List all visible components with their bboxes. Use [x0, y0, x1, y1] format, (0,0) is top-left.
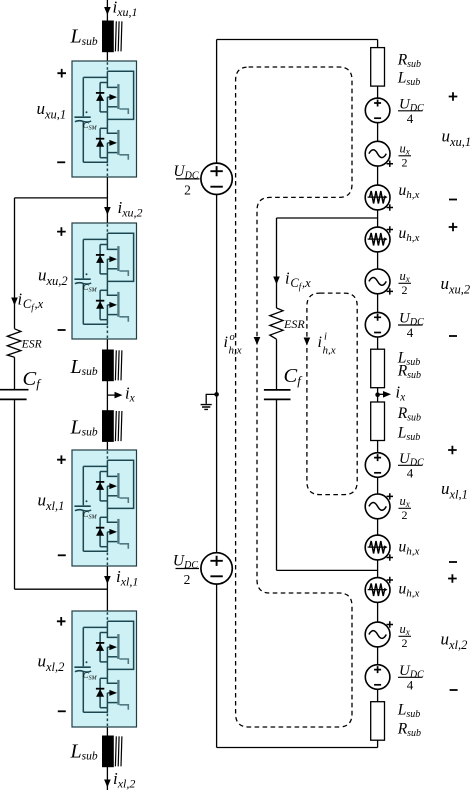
terminal plus u_xl,1 — [448, 446, 457, 455]
polarity plus mark — [387, 161, 393, 167]
wire: filter branch top horizontal — [277, 217, 378, 219]
svg-text:h,x: h,x — [229, 345, 242, 357]
polarity plus mark — [387, 288, 393, 294]
arrow on inner dashed loop — [304, 338, 311, 346]
source u_x/2 no.3 — [365, 494, 390, 519]
polarity plus mark — [387, 554, 393, 560]
node i_x with dot and arrow — [375, 392, 380, 397]
node plus u_xu,2 — [57, 227, 66, 236]
wire: arm chain vertical — [377, 40, 379, 748]
wire: filter branch vertical — [276, 218, 278, 570]
node plus u_xu,1 — [57, 69, 66, 78]
svg-text:2: 2 — [402, 283, 408, 297]
polarity plus mark — [387, 493, 393, 499]
submodule u_xl,2 — [72, 611, 137, 727]
inductor L_sub 1 — [102, 21, 122, 53]
svg-text:ESR: ESR — [283, 317, 305, 331]
wire: filter tap upper — [15, 197, 108, 199]
svg-text:Cf: Cf — [23, 368, 43, 391]
svg-text:uxu,1: uxu,1 — [37, 99, 67, 122]
source U_DC/4 no.2 — [365, 312, 390, 337]
node plus u_xl,1 — [57, 455, 66, 464]
terminal minus u_xl,1 — [449, 561, 457, 563]
svg-text:uh,x: uh,x — [399, 182, 420, 201]
ground — [214, 392, 219, 397]
submodule u_xu,2 — [72, 223, 137, 339]
arrow i_xu,1 — [104, 7, 111, 15]
node plus u_xl,2 — [57, 617, 66, 626]
svg-text:Lsub: Lsub — [70, 356, 98, 378]
svg-text:iCf,x: iCf,x — [18, 290, 44, 313]
wire: main left branch axis — [106, 0, 108, 790]
svg-text:ix: ix — [125, 384, 136, 405]
svg-text:ux: ux — [400, 142, 410, 157]
source U_DC/2 upper — [201, 163, 232, 194]
svg-text:Lsub: Lsub — [397, 702, 421, 721]
svg-text:Rsub: Rsub — [397, 52, 421, 71]
svg-text:ESR: ESR — [21, 339, 42, 351]
source U_DC/4 no.3 — [365, 453, 390, 478]
inductor L_sub 2 — [102, 350, 122, 382]
source u_h,x no.1 — [365, 185, 390, 210]
terminal plus u_xl,2 — [448, 574, 457, 583]
svg-text:2: 2 — [402, 508, 408, 522]
source u_h,x no.2 — [365, 227, 390, 252]
arrow i_x (left) — [107, 394, 115, 396]
svg-text:ux: ux — [400, 269, 410, 284]
svg-text:ux: ux — [400, 494, 410, 509]
arrow i_xu,2 — [104, 207, 111, 215]
source U_DC/2 lower — [201, 553, 232, 584]
inductor L_sub 4 — [102, 736, 122, 768]
node minus u_xl,1 — [58, 554, 66, 556]
svg-text:i: i — [318, 334, 322, 351]
terminal minus u_xl,2 — [450, 689, 458, 691]
source u_x/2 no.4 — [365, 622, 390, 647]
polarity plus mark — [387, 204, 393, 210]
source u_x/2 no.2 — [365, 269, 390, 294]
dashed loop i_h,x outer — [236, 67, 352, 727]
wire: DC link vertical — [216, 40, 218, 748]
svg-text:4: 4 — [407, 465, 414, 480]
svg-text:ixu,2: ixu,2 — [118, 198, 143, 219]
source U_DC/4 no.1 — [365, 98, 390, 123]
resistor ESR (left filter) — [7, 329, 21, 358]
svg-text:2: 2 — [402, 636, 408, 650]
source u_h,x no.4 — [365, 578, 390, 603]
svg-text:Lsub: Lsub — [70, 26, 98, 48]
wire: filter branch bottom horizontal — [277, 569, 378, 571]
arrow on outer dashed loop — [254, 337, 261, 345]
svg-text:ix: ix — [396, 383, 407, 404]
node minus u_xu,2 — [58, 329, 66, 331]
svg-text:Lsub: Lsub — [70, 417, 98, 439]
svg-text:iCf,x: iCf,x — [285, 269, 311, 292]
svg-text:ixl,1: ixl,1 — [116, 567, 138, 588]
arrow i_Cf,x (right) — [273, 277, 280, 285]
capacitor Cf (left filter) — [0, 389, 29, 391]
submodule u_xl,1 — [72, 450, 137, 566]
inductor L_sub 3 — [102, 410, 122, 442]
wire: filter tap lower — [15, 588, 108, 590]
submodule u_xu,1 — [72, 61, 137, 177]
svg-text:i: i — [324, 332, 327, 343]
terminal plus u_xu,1 — [449, 92, 458, 101]
svg-text:Rsub: Rsub — [397, 405, 421, 424]
wire: filter branch vertical — [14, 198, 16, 589]
svg-text:uxl,1: uxl,1 — [38, 491, 65, 514]
svg-text:4: 4 — [407, 677, 414, 692]
svg-text:uxl,2: uxl,2 — [38, 652, 65, 675]
svg-text:2: 2 — [402, 156, 408, 170]
svg-text:uxu,2: uxu,2 — [441, 274, 471, 297]
arrow i_xl,2 — [104, 780, 111, 788]
svg-text:uxl,1: uxl,1 — [441, 479, 468, 502]
capacitor Cf (right) — [264, 389, 291, 391]
svg-text:2: 2 — [184, 572, 191, 587]
impedance R_sub L_sub 3 — [371, 402, 385, 441]
svg-text:uxl,2: uxl,2 — [441, 630, 468, 653]
svg-text:uxu,1: uxu,1 — [442, 127, 472, 150]
wire: top horizontal — [217, 39, 378, 41]
polarity plus mark — [387, 621, 393, 627]
source u_x/2 no.1 — [365, 141, 390, 166]
dashed loop i_h,x inner — [307, 293, 357, 495]
svg-text:i: i — [224, 334, 228, 351]
svg-text:Lsub: Lsub — [397, 425, 421, 444]
impedance R_sub L_sub 1 — [371, 48, 385, 87]
svg-text:ixu,1: ixu,1 — [113, 0, 138, 19]
svg-text:Lsub: Lsub — [397, 70, 421, 89]
svg-text:4: 4 — [407, 111, 414, 126]
terminal plus u_xu,2 — [449, 223, 458, 232]
svg-text:ixl,2: ixl,2 — [113, 769, 135, 790]
arrow i_xl,1 — [104, 576, 111, 584]
node minus u_xu,1 — [57, 161, 65, 163]
polarity plus mark — [387, 226, 393, 232]
polarity plus mark — [387, 577, 393, 583]
svg-text:uxu,2: uxu,2 — [38, 266, 68, 289]
svg-text:ux: ux — [400, 622, 410, 637]
svg-text:2: 2 — [184, 183, 191, 198]
svg-text:o: o — [230, 332, 235, 343]
svg-text:uh,x: uh,x — [399, 225, 420, 244]
impedance L_sub R_sub 4 — [371, 702, 385, 741]
svg-text:Cf: Cf — [284, 365, 304, 388]
svg-text:Rsub: Rsub — [397, 721, 421, 740]
svg-text:uh,x: uh,x — [399, 581, 420, 600]
wire: bottom horizontal — [217, 747, 378, 749]
source u_h,x no.3 — [365, 535, 390, 560]
svg-text:uh,x: uh,x — [399, 539, 420, 558]
svg-text:h,x: h,x — [323, 345, 336, 357]
resistor ESR (right) — [270, 308, 283, 339]
arrow i_Cf,x (left) — [11, 298, 18, 306]
impedance L_sub R_sub 2 — [371, 349, 385, 388]
svg-text:Lsub: Lsub — [70, 741, 98, 763]
svg-text:4: 4 — [407, 325, 414, 340]
terminal minus u_xu,1 — [449, 199, 457, 201]
node minus u_xl,2 — [58, 710, 66, 712]
terminal minus u_xu,2 — [449, 335, 457, 337]
source U_DC/4 no.4 — [365, 665, 390, 690]
